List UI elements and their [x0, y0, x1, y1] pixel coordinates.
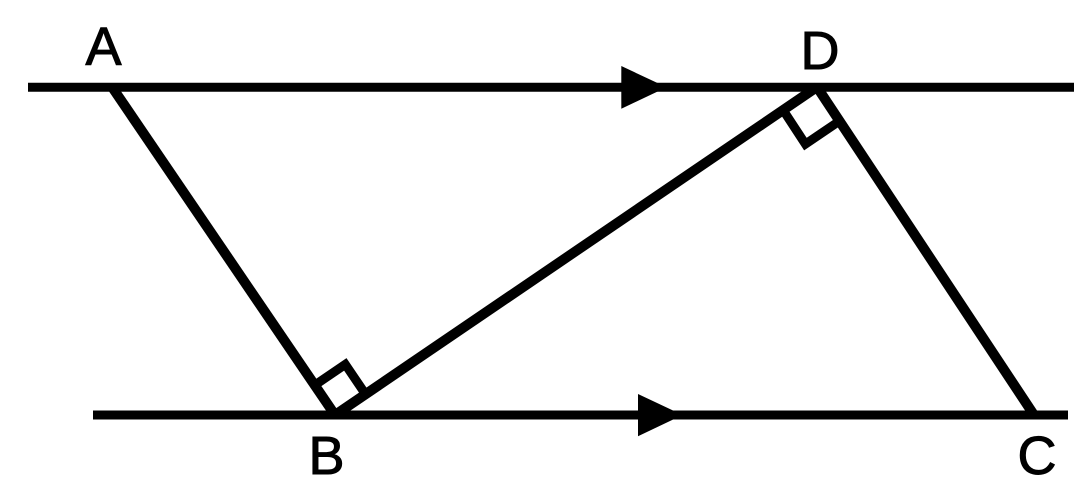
arrow on line BC — [638, 394, 683, 436]
svg-text:D: D — [801, 21, 840, 81]
segment BD — [335, 87, 817, 415]
arrow on line AD — [621, 66, 666, 109]
segment DC — [817, 87, 1034, 415]
right angle marker at B — [316, 364, 365, 393]
svg-text:B: B — [308, 426, 344, 486]
line BC (bottom parallel line) — [93, 411, 1068, 420]
svg-text:A: A — [85, 17, 121, 77]
line AD (top parallel line) — [28, 83, 1074, 92]
right angle marker at D — [785, 112, 837, 144]
svg-text:C: C — [1018, 426, 1057, 486]
segment AB — [112, 87, 335, 415]
